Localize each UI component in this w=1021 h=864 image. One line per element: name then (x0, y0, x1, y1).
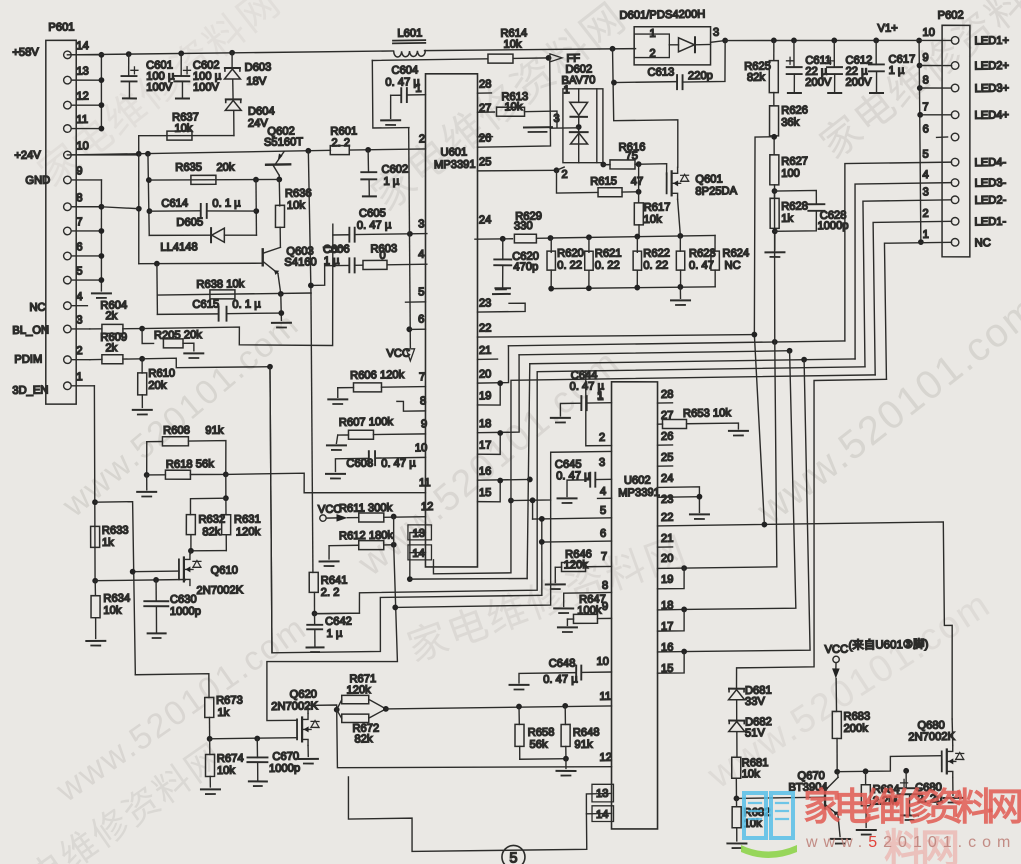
svg-text:3: 3 (713, 27, 719, 39)
svg-text:C608: C608 (346, 458, 373, 470)
svg-text:R606 120k: R606 120k (350, 369, 405, 382)
svg-text:7: 7 (922, 101, 928, 113)
wire U602 pin2 riser (585, 371, 612, 446)
wire LED3- line L4 (530, 359, 855, 364)
wire +24V rail (67, 150, 330, 155)
svg-text:5: 5 (922, 149, 928, 161)
svg-text:7: 7 (419, 371, 425, 383)
svg-text:10k: 10k (504, 101, 523, 113)
wire R612 to Q620 gate net (265, 545, 398, 721)
ground R618 (146, 475, 148, 490)
svg-text:9: 9 (421, 418, 427, 430)
svg-text:200V: 200V (845, 76, 872, 88)
svg-text:26: 26 (479, 132, 492, 144)
wire sense top line (550, 235, 715, 238)
svg-text:1: 1 (563, 84, 569, 96)
wire R601 to U601 pin2 (349, 149, 425, 150)
svg-text:3: 3 (76, 314, 82, 326)
svg-text:14: 14 (412, 548, 425, 560)
svg-text:Q601: Q601 (695, 173, 723, 185)
MOSFET Q620 2N7002K (296, 719, 298, 739)
ground C648 (510, 684, 529, 687)
wire P602 pin8 (920, 87, 952, 90)
svg-text:NC: NC (724, 260, 740, 272)
svg-text:R627: R627 (781, 155, 808, 167)
wire LED1- route to U602 pin3 (509, 375, 876, 501)
wire U602 pin25 stub (658, 465, 673, 467)
svg-text:BL_ON: BL_ON (12, 324, 49, 337)
svg-text:25: 25 (479, 156, 492, 168)
wire Q670 collector (837, 772, 839, 778)
wire D601 pin3 out (711, 41, 726, 43)
resistor R658 (518, 707, 520, 725)
wire BL_ON (141, 224, 334, 348)
P601 pin 11 (67, 127, 101, 130)
ground R606 (337, 388, 339, 398)
svg-text:6: 6 (600, 528, 606, 540)
svg-text:R634: R634 (103, 593, 130, 605)
wire source line (95, 579, 185, 580)
resistor R618 (147, 474, 166, 476)
wire rail drop to Q601 drain (613, 48, 679, 168)
wire 3D_EN net to R673 (135, 674, 209, 699)
svg-text:NC: NC (29, 302, 45, 314)
svg-text:LED3-: LED3- (974, 177, 1006, 189)
wire R608 left to R618 (145, 442, 148, 475)
svg-text:C645: C645 (555, 458, 582, 470)
wire LED2- from P602 pin3 (863, 200, 954, 367)
svg-text:10k: 10k (174, 123, 193, 135)
svg-text:56k: 56k (529, 739, 548, 751)
P601 pin 5 (67, 279, 101, 282)
P601 pin 10 (67, 154, 138, 156)
svg-text:2N7002K: 2N7002K (196, 584, 243, 597)
svg-text:2: 2 (76, 345, 82, 357)
ground R607 (336, 435, 338, 443)
svg-text:D604: D604 (248, 105, 275, 117)
ground R684 (857, 829, 876, 832)
P601 pin 14 (67, 53, 101, 56)
svg-text:91k: 91k (205, 425, 224, 437)
ground R613 (524, 126, 552, 129)
svg-text:0. 47 µ: 0. 47 µ (381, 457, 416, 470)
svg-text:S5160T: S5160T (264, 136, 303, 149)
wire V1+ rail (725, 37, 951, 44)
svg-text:R626: R626 (781, 104, 808, 116)
blue book logo (744, 793, 793, 838)
svg-text:23: 23 (479, 297, 492, 309)
MOSFET Q601 8P25DA (665, 173, 668, 193)
resistor R621 (588, 238, 590, 253)
svg-text:330: 330 (514, 220, 533, 232)
svg-text:8P25DA: 8P25DA (695, 185, 737, 198)
svg-text:28: 28 (479, 78, 492, 90)
svg-text:MP3391: MP3391 (434, 159, 476, 172)
svg-text:2k: 2k (105, 310, 117, 322)
svg-text:20: 20 (479, 368, 492, 380)
resistor R631 (225, 498, 227, 515)
svg-text:PDIM: PDIM (14, 353, 42, 365)
svg-text:100: 100 (781, 168, 800, 180)
resistor R603 (355, 264, 363, 266)
svg-text:5: 5 (418, 286, 424, 298)
svg-text:17: 17 (479, 440, 492, 452)
svg-text:LED4+: LED4+ (974, 109, 1009, 122)
svg-text:R607 100k: R607 100k (339, 416, 394, 429)
ground P601 (92, 292, 111, 295)
svg-text:R658: R658 (528, 727, 555, 739)
svg-text:2: 2 (561, 169, 567, 181)
resistor R671 (342, 695, 369, 704)
svg-text:C648: C648 (549, 658, 576, 670)
capacitor C612 (833, 40, 836, 67)
svg-text:24: 24 (479, 214, 492, 226)
wire LED4- line L2 (508, 341, 844, 346)
wire U602 pin22 FB line (658, 522, 954, 724)
wire U601 pin23 to sense ground line (477, 303, 525, 312)
wire U602 pins24-23 to ground (658, 487, 700, 513)
ground R634 (86, 640, 105, 642)
svg-text:13: 13 (76, 65, 89, 77)
wire V1+ bus (918, 40, 921, 242)
resistor R625 (773, 40, 776, 60)
wire U602 pins13-14 bracket (586, 793, 612, 813)
zener D681 (729, 687, 744, 690)
svg-text:R620: R620 (557, 247, 584, 259)
resistor R620 (550, 238, 552, 253)
wire PDIM to pin6 net (268, 363, 542, 653)
svg-text:0. 47 µ: 0. 47 µ (357, 219, 392, 232)
capacitor C608 (368, 451, 370, 465)
svg-text:1: 1 (597, 391, 603, 403)
svg-text:R631: R631 (234, 513, 261, 525)
wire +58V rail (67, 50, 393, 56)
ground sense line (679, 287, 681, 298)
wire R671-R672 right node (369, 699, 386, 709)
resistor R617 (634, 203, 644, 225)
wire pins13-14 net to U602 area (410, 577, 527, 580)
resistor R614 (488, 54, 513, 64)
svg-text:R622: R622 (643, 247, 670, 259)
svg-text:0. 22: 0. 22 (595, 260, 620, 272)
wire Q620 drain (308, 705, 337, 713)
wire P602 pin7 (920, 113, 951, 116)
svg-text:1k: 1k (217, 707, 229, 719)
svg-text:1 µ: 1 µ (888, 65, 904, 77)
capacitor C620 (502, 239, 504, 260)
ground R610 (133, 409, 152, 412)
green swoosh (741, 845, 797, 858)
wire U601 pin21 stub (478, 358, 498, 360)
wire R616-R615 node (637, 164, 640, 203)
svg-text:R608: R608 (163, 425, 190, 437)
svg-text:2: 2 (922, 208, 928, 220)
ground C608 (326, 473, 345, 475)
svg-text:5: 5 (76, 265, 82, 277)
wire Q670 emitter to ground (838, 815, 840, 837)
resistor R683 (835, 678, 837, 711)
svg-text:10k: 10k (287, 200, 306, 212)
capacitor C614 (149, 210, 200, 211)
svg-text:18V: 18V (246, 76, 267, 88)
wire U601 pins 16-15 tie (478, 478, 530, 481)
svg-text:11: 11 (76, 114, 88, 126)
svg-text:12: 12 (76, 90, 89, 102)
svg-text:R633: R633 (102, 525, 129, 537)
wire U601 pins13-14 bracket (410, 532, 426, 552)
svg-text:11: 11 (599, 691, 611, 703)
P601 pin 7 (67, 229, 101, 232)
wire pin8 net vertical (137, 154, 140, 264)
P602 pin 2 LED1- (951, 217, 959, 225)
P601 pin 6 (67, 254, 101, 257)
svg-text:12: 12 (599, 752, 612, 764)
svg-text:20: 20 (661, 553, 674, 565)
svg-text:0. 22: 0. 22 (557, 259, 582, 271)
wire U602 pin8 to ground (564, 592, 612, 606)
MOSFET Q680 2N7002K (941, 751, 943, 771)
wire FB net vertical A (752, 137, 775, 525)
svg-text:C613: C613 (647, 66, 674, 78)
wire R658-R648 bottoms (520, 758, 566, 761)
U601 pin 14 box (408, 545, 432, 561)
svg-text:C604: C604 (391, 64, 418, 76)
svg-text:82k: 82k (747, 72, 766, 84)
wire LED1- from P602 pin2 (873, 221, 953, 375)
wire U601 pin22 FB line L1 (477, 333, 754, 339)
svg-text:R601: R601 (330, 125, 357, 137)
svg-text:LED4-: LED4- (974, 157, 1006, 169)
svg-text:10k: 10k (742, 768, 761, 780)
wire PDIM (142, 357, 270, 369)
wire D602 mid to FF riser (550, 127, 579, 129)
zener D603 (231, 53, 233, 68)
resistor R608 (147, 440, 163, 442)
resistor R638 (157, 293, 311, 295)
svg-text:2: 2 (419, 133, 425, 145)
capacitor C602 (180, 53, 183, 76)
svg-text:11: 11 (419, 477, 431, 489)
svg-text:0. 47 µ: 0. 47 µ (543, 673, 578, 686)
svg-text:R610: R610 (148, 368, 175, 380)
ground C605/BL_ON (324, 246, 343, 249)
svg-text:Q610: Q610 (211, 565, 239, 577)
resistor R610 (141, 359, 143, 373)
wire U602 pin4 stub (598, 497, 612, 499)
svg-text:1000p: 1000p (269, 762, 300, 774)
FF arrow (550, 54, 562, 62)
resistor R684 (864, 771, 866, 784)
ground R648 (565, 759, 567, 769)
resistor R609 (90, 358, 102, 360)
wire FF riser to pin1 net (372, 60, 409, 128)
wire U602 pin18-17 tie (658, 608, 685, 610)
svg-text:75: 75 (625, 150, 638, 162)
wire U602 pin16-15 tie (658, 651, 685, 653)
svg-text:200V: 200V (805, 76, 832, 88)
svg-text:6: 6 (418, 314, 424, 326)
svg-text:U602: U602 (624, 474, 651, 486)
svg-text:LED2-: LED2- (974, 194, 1006, 206)
svg-text:10k: 10k (503, 38, 522, 50)
resistor R615 (598, 187, 622, 197)
svg-text:2N7002K: 2N7002K (271, 700, 318, 713)
svg-text:C630: C630 (170, 594, 197, 606)
svg-text:24: 24 (661, 473, 674, 485)
ground R205 (184, 352, 203, 355)
ground R612 (320, 560, 339, 562)
svg-text:NC: NC (975, 237, 991, 249)
svg-text:10k: 10k (644, 214, 663, 226)
svg-text:MP3391: MP3391 (618, 487, 660, 500)
wire Q610 source (184, 579, 186, 582)
svg-text:R638 10k: R638 10k (196, 278, 244, 291)
wire pin3 channel tap (394, 500, 552, 607)
wire R671-R672 left node (334, 707, 340, 713)
resistor R681 (731, 757, 741, 778)
ground C645 (558, 497, 577, 500)
resistor R637 (139, 134, 234, 137)
svg-text:C615: C615 (192, 298, 219, 310)
P601 pin 8 (67, 205, 101, 208)
resistor R648 (564, 706, 566, 725)
svg-text:20k: 20k (148, 380, 167, 392)
wire U601 pin25 to D602 pin2 (478, 170, 557, 172)
wire Q610 gate line (133, 570, 179, 573)
P601 pin 4 (67, 304, 87, 307)
svg-text:33V: 33V (745, 696, 766, 708)
P602 pin 8 LED3+ (951, 84, 959, 92)
wire C615 to ground (280, 294, 283, 321)
ground C620 (495, 287, 510, 289)
wire Q680 drain (951, 719, 954, 746)
capacitor C611 (793, 40, 796, 67)
wire Q620 gate line (210, 738, 297, 739)
svg-text:2. 2: 2. 2 (321, 587, 340, 599)
wire P601 pin8 to bias net (101, 206, 138, 209)
wire U602 pin28 stub (657, 402, 672, 404)
P602 pin 7 LED4+ (951, 111, 959, 119)
ground R628 (765, 251, 784, 253)
svg-text:5: 5 (509, 850, 517, 864)
wire boot vertical to VCC arrow (408, 128, 412, 348)
U601 pin 13 box (408, 525, 432, 541)
svg-text:220p: 220p (688, 70, 713, 82)
svg-text:C614: C614 (161, 197, 188, 209)
svg-text:1000p: 1000p (817, 220, 848, 232)
svg-text:1: 1 (922, 229, 928, 241)
svg-text:120k: 120k (346, 684, 371, 696)
wire R671 node to U602 pin11 (386, 706, 612, 710)
capacitor C615 (157, 313, 218, 314)
svg-text:25: 25 (661, 452, 674, 464)
svg-text:R618 56k: R618 56k (166, 458, 214, 471)
svg-text:R635: R635 (175, 161, 202, 173)
resistor R616 (600, 162, 606, 168)
svg-text:15: 15 (479, 487, 492, 499)
wire R671 left node to U602 pin12 (337, 706, 612, 771)
resistor R628 (770, 198, 780, 228)
svg-text:7: 7 (601, 551, 607, 563)
resistor R601 (330, 145, 349, 155)
ground R646 (554, 567, 556, 582)
svg-text:(来自U601③脚): (来自U601③脚) (848, 637, 928, 652)
P601 pin 2 (67, 358, 89, 361)
svg-text:LED3+: LED3+ (975, 82, 1010, 95)
capacitor C617 (875, 40, 878, 64)
svg-text:R615: R615 (590, 175, 617, 187)
wire divider node down (225, 474, 227, 498)
svg-text:LL4148: LL4148 (160, 241, 197, 254)
svg-text:V1+: V1+ (877, 23, 897, 35)
svg-text:23: 23 (661, 494, 674, 506)
svg-text:14: 14 (596, 809, 609, 821)
svg-text:3: 3 (418, 218, 424, 230)
svg-text:14: 14 (76, 40, 89, 52)
ground R647 (566, 619, 568, 625)
P602 pin 4 LED3- (951, 179, 959, 187)
svg-text:R653 10k: R653 10k (683, 407, 731, 420)
wire PDIM drop tail (268, 367, 273, 653)
svg-text:12: 12 (421, 501, 434, 513)
svg-text:U601: U601 (440, 146, 467, 158)
resistor R623 (679, 236, 681, 251)
svg-text:8: 8 (602, 580, 608, 592)
wire R618 node to U601 pin11 (226, 471, 426, 495)
svg-text:R205 20k: R205 20k (154, 329, 202, 342)
wire Q603 emitter to sense (278, 273, 281, 294)
resistor R627 (769, 155, 779, 185)
svg-text:R621: R621 (595, 247, 622, 259)
svg-text:91k: 91k (574, 739, 593, 751)
resistor R672 (342, 714, 369, 723)
wire NC net to D681 (733, 379, 890, 688)
wire U602 pin20-19 tie (658, 567, 777, 569)
svg-text:0. 22: 0. 22 (643, 259, 668, 271)
resistor R674 (209, 739, 211, 755)
ground R682 (727, 842, 746, 845)
resistor R636 (278, 179, 281, 205)
svg-text:4: 4 (76, 291, 82, 303)
svg-text:4: 4 (922, 169, 928, 181)
U602 pin 13 box (592, 784, 614, 802)
svg-text:5: 5 (600, 505, 606, 517)
ground C615 (272, 322, 291, 324)
wire R631 to drain node (191, 549, 226, 552)
svg-text:82k: 82k (202, 526, 221, 538)
svg-text:2: 2 (649, 48, 655, 60)
svg-text:47: 47 (631, 176, 644, 188)
ground R653 (729, 430, 748, 433)
wire Q680 source to ground (952, 777, 954, 795)
svg-text:20k: 20k (216, 162, 235, 174)
svg-text:C642: C642 (325, 615, 352, 627)
wire U601 pins 20-19 tie (477, 346, 509, 383)
wire R638 to +24V vertical (308, 151, 311, 293)
svg-text:2. 2: 2. 2 (331, 137, 350, 149)
wire NC net from P602 pin1 (884, 242, 953, 379)
svg-text:0. 1 µ: 0. 1 µ (212, 197, 241, 209)
svg-text:0. 1 µ: 0. 1 µ (232, 298, 261, 310)
svg-text:1: 1 (649, 28, 655, 40)
capacitor C648 (575, 666, 577, 680)
IC U602 MP3391 (606, 381, 663, 829)
resistor R613 (477, 111, 494, 113)
U601 pin 8 stub (397, 401, 426, 411)
svg-text:R624: R624 (722, 247, 749, 259)
wire R614 to FF arrow (514, 57, 550, 60)
U601 pin 6 stub (409, 328, 425, 330)
